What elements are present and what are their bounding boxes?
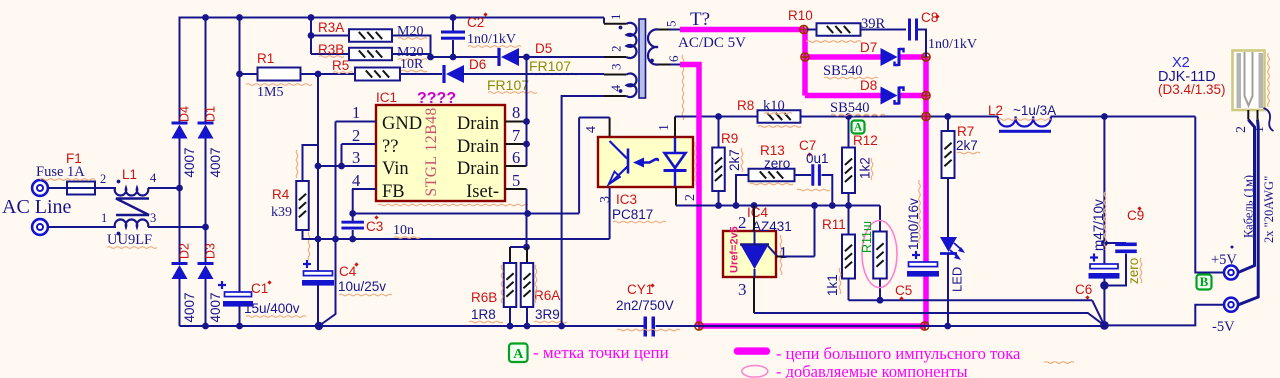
wire A-row [675, 113, 758, 120]
junction marker [922, 112, 931, 121]
junction marker [695, 322, 704, 331]
wire [1051, 113, 1196, 120]
svg-text:1: 1 [352, 103, 360, 122]
label C7 [799, 138, 816, 157]
resistor R4 [296, 145, 318, 239]
svg-text:6: 6 [512, 148, 520, 167]
svg-text:D1: D1 [204, 106, 218, 122]
svg-text:k39: k39 [271, 205, 292, 220]
capacitor CY1 [644, 317, 656, 337]
legend node marker [509, 344, 528, 363]
svg-text:D4: D4 [178, 106, 192, 122]
capacitor C7 [811, 164, 835, 209]
svg-text:M20: M20 [397, 24, 423, 39]
pin 1 (X2) [1252, 110, 1267, 133]
label 3R9 [534, 265, 567, 323]
wire [947, 254, 949, 327]
pin T1 [604, 14, 627, 24]
label D4 [178, 106, 192, 122]
wire drain column [523, 57, 530, 166]
label 10n [393, 223, 420, 238]
capacitor C8 [908, 19, 926, 58]
svg-text:2х "20AWG": 2х "20AWG" [1262, 176, 1276, 243]
resistor R11 [842, 206, 855, 301]
svg-text:C2: C2 [467, 15, 484, 30]
svg-text:R6B: R6B [471, 290, 497, 305]
wire +5V [1195, 117, 1223, 273]
wire [179, 279, 181, 326]
cable wire - [1239, 120, 1259, 305]
label Uref=2v5 [729, 226, 741, 273]
svg-text:D8: D8 [860, 78, 877, 93]
label k10 [758, 98, 801, 127]
wire [603, 18, 605, 24]
label 3 (IC3) [598, 196, 613, 203]
svg-text:R4: R4 [272, 187, 290, 202]
label 1k2 [858, 157, 873, 180]
transformer core [639, 19, 646, 98]
wire [48, 226, 116, 228]
label 3 [150, 211, 156, 225]
label R11sh [860, 221, 874, 253]
label 0u1 [797, 151, 830, 191]
svg-text:2: 2 [1234, 126, 1249, 133]
svg-text:PC817: PC817 [612, 207, 653, 222]
label 2 [100, 172, 106, 186]
label k39 [271, 150, 310, 260]
svg-text:1: 1 [779, 243, 788, 262]
label m47/10v [1091, 192, 1106, 251]
net big-pulse right col [923, 57, 929, 262]
capacitor C6 [1089, 117, 1120, 327]
wire [148, 224, 209, 231]
svg-text:STGL 12B48: STGL 12B48 [423, 107, 440, 196]
label 4 [150, 171, 157, 185]
junction marker [920, 322, 929, 331]
label C4 [339, 262, 359, 279]
svg-text:C4: C4 [339, 264, 357, 279]
label -5V [1212, 319, 1235, 335]
svg-text:1: 1 [657, 124, 672, 131]
label 4007 (D4) [182, 147, 197, 177]
wire [1092, 300, 1104, 325]
svg-text:Drain: Drain [457, 114, 499, 134]
svg-text:4: 4 [608, 85, 623, 92]
IC3 phototransistor [609, 141, 629, 185]
svg-text:A: A [854, 122, 863, 134]
svg-text:8: 8 [512, 103, 520, 122]
svg-text:R12: R12 [853, 133, 878, 148]
label 39R [861, 16, 886, 32]
wire [317, 285, 319, 327]
svg-text:2k7: 2k7 [727, 149, 742, 171]
label 1 (IC3) [657, 124, 672, 131]
pin 1 [352, 103, 376, 122]
svg-text:3: 3 [609, 64, 624, 71]
wire [179, 17, 181, 123]
svg-text:10u/25v: 10u/25v [338, 279, 386, 294]
label 4 (IC3) [584, 126, 599, 133]
label CY1 [627, 282, 655, 297]
svg-text:1n0/1kV: 1n0/1kV [928, 37, 977, 52]
label R10 [788, 8, 861, 42]
label AZ431 [752, 219, 792, 275]
label M20 (R3B) [397, 45, 427, 60]
resistor R6B [504, 247, 517, 326]
svg-text:D3: D3 [204, 243, 218, 259]
svg-text:R1: R1 [257, 51, 274, 66]
label 2 (IC3) [683, 194, 698, 201]
svg-text:1R8: 1R8 [471, 307, 496, 322]
resistor R9 [712, 117, 725, 209]
svg-text:D5: D5 [535, 41, 552, 56]
wire pin4 link [579, 118, 610, 214]
svg-text:1n0/1kV: 1n0/1kV [467, 32, 516, 47]
svg-text:4: 4 [352, 171, 360, 190]
legend text 3 [776, 362, 968, 378]
svg-text:D2: D2 [178, 243, 192, 259]
wire [517, 54, 604, 61]
label FR107 (D5) [529, 58, 578, 75]
svg-text:1k2: 1k2 [858, 157, 873, 179]
svg-text:????: ???? [417, 90, 456, 107]
svg-text:~1u/3A: ~1u/3A [1013, 103, 1056, 118]
net big-pulse pin6 col [680, 65, 699, 327]
wire [318, 165, 376, 167]
label SB540 (D7) [823, 63, 878, 79]
svg-text:R8: R8 [737, 98, 754, 113]
svg-text:-5V: -5V [1212, 319, 1235, 335]
svg-text:R10: R10 [788, 8, 813, 23]
svg-text:SB540: SB540 [830, 100, 870, 116]
svg-text:4007: 4007 [182, 147, 197, 177]
label zero (C9) [1126, 258, 1142, 284]
net big-pulse from pin5 [680, 27, 804, 33]
wire [48, 187, 67, 189]
net big-pulse D8 row [805, 93, 926, 99]
pin T4 [604, 85, 627, 97]
label D2 [178, 243, 192, 259]
svg-text:B: B [1200, 274, 1209, 289]
wire ref net [754, 313, 1104, 325]
svg-text:39R: 39R [861, 16, 886, 32]
svg-text:2: 2 [609, 46, 624, 53]
svg-text:4007: 4007 [208, 147, 223, 177]
IC IC1 body [376, 105, 528, 206]
wire gnd net [303, 236, 610, 243]
AC input terminal (neutral) [32, 219, 48, 235]
IC3 led [664, 138, 687, 186]
label R4 [272, 187, 290, 202]
pin 8 [505, 103, 527, 122]
svg-text:1: 1 [608, 14, 623, 21]
svg-text:UU9LF: UU9LF [107, 232, 152, 248]
label 4007 (D1) [208, 147, 223, 177]
svg-text:- метка точки цепи: - метка точки цепи [533, 343, 669, 362]
pin 2 (X2) [1234, 110, 1249, 133]
pin 4 [352, 171, 376, 190]
wire [179, 139, 181, 264]
transformer primary winding 2 [619, 73, 637, 97]
svg-text:AC/DC 5V: AC/DC 5V [678, 35, 746, 51]
optocoupler IC3 body [598, 137, 693, 187]
LED [940, 237, 965, 260]
svg-text:4: 4 [584, 126, 599, 133]
diode D5 [499, 48, 519, 66]
resistor R3B [311, 48, 431, 61]
label R12 [853, 133, 878, 148]
svg-text:2: 2 [352, 126, 360, 145]
svg-text:3: 3 [352, 148, 360, 167]
label DJK-11D [1158, 69, 1216, 85]
label 1m0/16v [906, 180, 921, 250]
label 1k1 [825, 268, 841, 296]
label Drain 7 [457, 137, 499, 157]
svg-text:Drain: Drain [457, 159, 499, 179]
svg-text:R3B: R3B [318, 42, 344, 57]
label C6 [1075, 282, 1092, 300]
svg-text:15u/400v: 15u/400v [244, 301, 300, 316]
svg-text:IC3: IC3 [616, 192, 637, 207]
pin T3 [604, 64, 627, 75]
label R5 [332, 58, 353, 73]
label F1 [66, 151, 82, 166]
svg-text:2k7: 2k7 [956, 138, 978, 153]
diode D8 [881, 87, 904, 105]
svg-text:R6A: R6A [534, 288, 560, 303]
pin 6 [505, 148, 527, 167]
svg-text:IC1: IC1 [376, 90, 397, 105]
node B marker [1197, 274, 1212, 289]
label 1M5 [246, 84, 312, 100]
label UU9LF [107, 232, 157, 248]
label M20 (R3A) [397, 24, 427, 39]
resistor R6A [521, 247, 534, 326]
label (D3.4/1.35) [1158, 82, 1226, 97]
wire [205, 139, 207, 264]
resistor R3A [311, 29, 431, 42]
svg-text:R7: R7 [957, 124, 974, 139]
svg-text:2: 2 [100, 172, 106, 186]
svg-text:Vin: Vin [382, 159, 409, 179]
resistor R8 [758, 110, 801, 123]
label C8 [921, 10, 940, 25]
label R3B [318, 42, 344, 57]
diode D1 [198, 123, 214, 139]
wire [308, 18, 315, 55]
fuse F1 [63, 182, 99, 195]
svg-text:D6: D6 [469, 57, 486, 72]
label Drain 6 [457, 159, 499, 179]
svg-text:C1: C1 [251, 281, 268, 296]
svg-text:zero: zero [764, 156, 790, 171]
label C9 [1127, 206, 1144, 223]
capacitor C5 [907, 251, 939, 277]
wire [148, 185, 183, 192]
label 4007 (D3) [208, 292, 223, 322]
wire [431, 56, 500, 58]
wire Vcc column [315, 71, 322, 262]
diode D4 [172, 123, 188, 139]
junction marker [799, 25, 808, 34]
label STGL 12B48 [423, 107, 440, 196]
resistor R10 [807, 23, 906, 36]
inductor L2 [998, 117, 1051, 133]
label 10R [400, 57, 427, 72]
pin 7 [505, 126, 527, 145]
terminal +5V [1224, 266, 1238, 280]
wire bottom bus left [180, 322, 645, 330]
svg-text:C3: C3 [366, 219, 383, 234]
label Iset- [466, 182, 499, 202]
IC4 tl431 symbol [740, 231, 778, 277]
wire [462, 73, 604, 75]
label Drain 8 [457, 114, 499, 134]
capacitor C2 [441, 18, 465, 61]
svg-text:- цепи большого импульсного т: - цепи большого импульсного тока [776, 344, 1021, 363]
svg-text:zero: zero [1126, 258, 1141, 284]
wire [319, 239, 336, 326]
svg-text:IC4: IC4 [747, 205, 769, 220]
svg-text:FR107: FR107 [487, 77, 529, 93]
svg-text:4007: 4007 [182, 292, 197, 322]
svg-text:4007: 4007 [208, 292, 223, 322]
label 2k7 (R7) [956, 138, 980, 154]
label C2 [467, 12, 488, 30]
label LED [950, 267, 965, 292]
label Vin [382, 159, 409, 179]
label 10u/25v [338, 279, 392, 296]
svg-text:Uref=2v5: Uref=2v5 [729, 226, 741, 273]
svg-text:k10: k10 [763, 98, 785, 114]
label 1R8 [469, 265, 503, 323]
resistor R13 [733, 169, 811, 209]
svg-text:D7: D7 [860, 40, 877, 55]
svg-text:C9: C9 [1127, 208, 1144, 223]
label R9 [721, 131, 738, 146]
pin T2 [604, 46, 627, 58]
net big-pulse D7 row [805, 54, 926, 60]
diode D2 [172, 264, 188, 280]
wire fb-opto net [353, 210, 579, 217]
svg-text:3: 3 [150, 211, 156, 225]
pin 2 [352, 126, 376, 145]
svg-text:AZ431: AZ431 [752, 219, 792, 234]
label R7 [957, 124, 974, 139]
label C1 [251, 280, 272, 296]
label C3 [366, 215, 383, 234]
label SB540 (D8) [830, 100, 885, 116]
wire iset column [523, 189, 530, 250]
AC input terminal (line) [32, 180, 48, 196]
pin 3 [352, 148, 376, 167]
wire -5V [1104, 305, 1223, 326]
label D3 [204, 243, 218, 259]
label IC1 [376, 90, 397, 105]
label D1 [204, 106, 218, 122]
label FR107 (D6) [487, 77, 537, 93]
legend text 1 [533, 343, 669, 362]
svg-text:2n2/750V: 2n2/750V [616, 298, 674, 313]
label zero (R13) [750, 156, 793, 185]
wire divider net [849, 297, 1093, 304]
net big-pulse bottom bus [699, 323, 926, 329]
svg-text:C8: C8 [921, 10, 938, 25]
svg-text:Кабель (1м): Кабель (1м) [1242, 175, 1256, 238]
label awg [1262, 176, 1276, 243]
wire [205, 279, 207, 327]
connector X2 body [1233, 51, 1270, 111]
svg-text:GND: GND [382, 114, 422, 134]
label IC4 [747, 205, 769, 220]
label 1n0/1kV [928, 37, 977, 52]
pin 5 [505, 171, 527, 190]
svg-text:FB: FB [382, 182, 405, 202]
label GND [382, 114, 422, 134]
wire pin4 return [562, 96, 604, 326]
legend ellipse [742, 366, 768, 378]
svg-text:3: 3 [598, 196, 613, 203]
svg-text:AC Line: AC Line [2, 196, 72, 218]
label L1 [122, 167, 137, 182]
resistor R12 [842, 117, 855, 206]
core of L1 [116, 199, 149, 216]
label R6A [534, 288, 560, 303]
svg-text:R9: R9 [721, 131, 738, 146]
label R11 [822, 217, 846, 232]
svg-text:L2: L2 [988, 103, 1003, 118]
wire pin3 link [609, 187, 611, 239]
svg-text:2: 2 [738, 213, 747, 232]
transformer primary winding 1 [619, 23, 637, 58]
svg-text:C5: C5 [895, 283, 912, 298]
capacitor C9 [1104, 243, 1136, 286]
label D7 [860, 40, 877, 55]
label T? [690, 9, 710, 30]
label R1 [257, 51, 274, 66]
IC4 body [723, 231, 776, 277]
label C5 [895, 283, 912, 301]
added ellipse R11sh [862, 221, 897, 288]
junction marker [922, 53, 931, 62]
label AC Line [2, 196, 72, 218]
junction marker [801, 53, 810, 62]
wire [239, 306, 241, 326]
pin 2 wire [675, 187, 677, 206]
wire GND link [332, 122, 376, 243]
resistor R5 [318, 68, 442, 81]
svg-text:??: ?? [382, 137, 398, 157]
label 4007 (D2) [182, 292, 197, 322]
svg-text:Iset-: Iset- [466, 182, 499, 202]
wire [95, 187, 116, 189]
label R6B [471, 290, 497, 305]
svg-text:A: A [513, 347, 524, 362]
label 1 [101, 211, 107, 225]
IC3 arrow [633, 158, 658, 168]
svg-text:10n: 10n [393, 223, 414, 238]
svg-text:- добавляемые компоненты: - добавляемые компоненты [776, 362, 968, 378]
legend thick line [734, 347, 771, 354]
svg-text:1k1: 1k1 [825, 274, 840, 296]
wire mid net [676, 202, 880, 209]
svg-text:7: 7 [512, 126, 520, 145]
svg-text:1: 1 [101, 211, 107, 225]
cable wire + [1238, 120, 1255, 273]
wire bottom bus right [656, 321, 1109, 330]
svg-text:R11ш: R11ш [860, 221, 874, 253]
wire [427, 35, 434, 61]
